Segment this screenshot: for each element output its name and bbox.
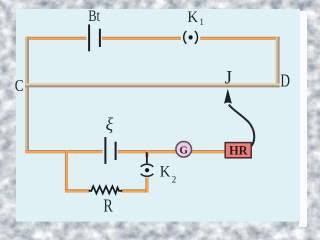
key K1 (dot in parentheses): [184, 31, 198, 44]
resistor R zigzag: [89, 186, 123, 193]
wire: left vertical C leg (tan potentiometer end): [26, 37, 28, 153]
wire: lower loop right segment (cell to HR): [118, 150, 226, 153]
svg-text:G: G: [179, 144, 188, 156]
high resistance box HR: [225, 143, 251, 158]
galvanometer G: [176, 142, 192, 158]
label D: [280, 71, 290, 91]
label R: [103, 195, 112, 215]
svg-text:Bt: Bt: [88, 8, 100, 25]
svg-text:D: D: [280, 71, 290, 91]
label K1: [187, 9, 204, 27]
svg-text:J: J: [225, 68, 232, 89]
wire: lower loop left segment: [26, 150, 103, 153]
wire: bottom horizontal right of R: [121, 189, 148, 193]
wire: K2 vertical upper stub: [145, 150, 149, 157]
svg-text:ξ: ξ: [106, 114, 114, 134]
svg-text:2: 2: [172, 174, 177, 184]
cell xi plates: [105, 137, 115, 164]
wire: top horizontal middle segment: [102, 37, 181, 40]
battery Bt plates: [89, 24, 100, 51]
svg-text:K: K: [160, 163, 171, 180]
wire: branch vertical at left (down to R): [65, 150, 69, 192]
wire: K2 vertical lower stub: [145, 178, 149, 193]
jockey J arrow and flexible wire to HR: [224, 89, 254, 147]
svg-text:K: K: [187, 9, 198, 26]
label Bt: [88, 8, 100, 25]
svg-text:HR: HR: [229, 143, 248, 157]
key K2 (dot in rotated parentheses): [141, 152, 154, 176]
panel: [16, 9, 300, 222]
svg-text:R: R: [103, 195, 112, 215]
wire: bottom horizontal left of R: [65, 189, 90, 193]
wire: right vertical D leg (tan potentiometer end): [277, 37, 279, 87]
svg-text:1: 1: [199, 17, 204, 27]
label C: [15, 76, 24, 95]
wire: top horizontal right segment: [200, 37, 279, 40]
label J: [225, 68, 232, 89]
wire: top horizontal left segment: [26, 37, 87, 40]
svg-text:C: C: [15, 76, 24, 95]
label xi: [106, 114, 114, 134]
label K2: [160, 163, 177, 184]
page white margin strip (right edge): [299, 11, 307, 227]
potentiometer wire C-D: [25, 84, 279, 86]
